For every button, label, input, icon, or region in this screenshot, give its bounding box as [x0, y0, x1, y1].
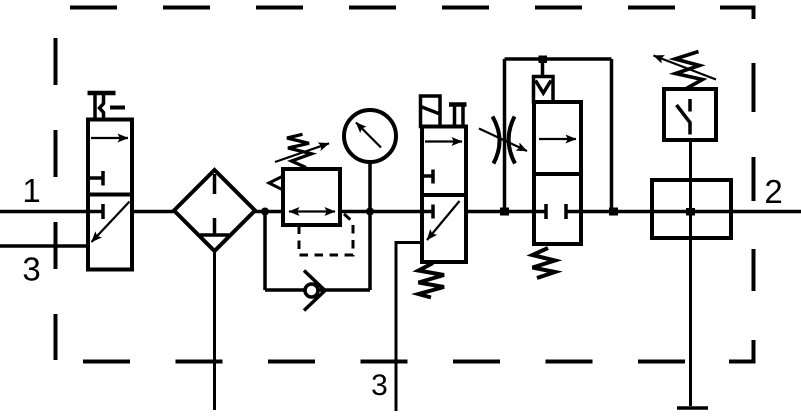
regulator double flow arrow	[289, 210, 335, 212]
V3 return spring	[533, 248, 556, 278]
node: distributor junction	[686, 208, 695, 216]
V1 top box blocked port T	[88, 171, 103, 186]
node: bypass right junction	[609, 208, 618, 216]
V2 top box flow arrow	[425, 140, 462, 142]
wire V2 to soft-start valve	[466, 210, 534, 214]
pressure switch adjustment arrow	[654, 56, 717, 80]
pressure switch spring	[675, 52, 703, 90]
svg-text:3: 3	[22, 251, 40, 288]
pressure switch contact	[688, 99, 692, 112]
V2 exhaust line to port 3	[396, 243, 422, 412]
regulator adjustment arrow	[275, 143, 329, 162]
regulator adjustment spring	[287, 134, 312, 167]
V2 return spring	[419, 263, 445, 298]
V3 bottom box blocked T left	[534, 204, 546, 219]
node: bypass left junction	[500, 208, 509, 216]
wire tee to pilot check valve	[541, 59, 545, 77]
drain end bar	[677, 406, 708, 410]
pressure switch PS1 box	[664, 89, 716, 140]
svg-text:2: 2	[764, 173, 782, 210]
V1 manual push-pull actuator	[88, 93, 126, 120]
port 3 line (left)	[0, 244, 88, 248]
pilot check valve box	[534, 77, 554, 103]
wire V1 to filter	[132, 210, 174, 214]
regulator relief triangle	[269, 176, 283, 190]
valve V1 shut-off 3/2 body	[88, 120, 132, 270]
V2 top box blocked port T	[422, 170, 433, 184]
adjustable throttle	[493, 117, 516, 164]
distributor block	[652, 180, 731, 238]
enclosure dashed frame top	[70, 8, 754, 20]
throttle adjustment arrow	[479, 129, 527, 152]
enclosure dashed frame right	[729, 63, 754, 362]
wire V3 to distributor and output port 2	[581, 210, 801, 214]
regulator R1 body	[283, 169, 340, 225]
V1 top box flow arrow	[91, 137, 128, 139]
filter F1 with water separator	[174, 170, 255, 251]
V2 manual override button	[449, 105, 467, 127]
enclosure dashed frame bottom	[83, 360, 685, 364]
check valve ball	[305, 284, 318, 297]
regulator pilot dashed line	[299, 214, 353, 255]
node: pilot tee junction	[539, 56, 548, 64]
V1 bottom box exhaust diagonal arrow	[92, 202, 130, 243]
V1 bottom box blocked port T	[88, 204, 103, 219]
node: gauge junction	[366, 208, 374, 216]
port 1 line	[0, 210, 88, 214]
distributor vertical line	[689, 140, 692, 406]
svg-text:1: 1	[22, 172, 40, 209]
soft-start bypass loop	[505, 59, 612, 212]
valve V3 soft-start 2/2 body	[534, 102, 581, 244]
V2 solenoid actuator	[421, 96, 441, 127]
pressure gauge G1	[344, 110, 396, 162]
svg-text:3: 3	[371, 369, 388, 402]
V3 bottom box blocked T right	[566, 204, 581, 219]
valve V2 solenoid 3/2 body	[422, 127, 466, 263]
bypass line with check valve	[265, 212, 370, 291]
gauge stem	[368, 162, 372, 212]
wire filter to regulator	[255, 210, 283, 214]
enclosure dashed frame left	[54, 38, 58, 360]
V2 bottom box blocked port T	[422, 205, 433, 219]
filter drain line	[213, 251, 216, 410]
V2 exhaust diagonal arrow	[427, 201, 460, 240]
gauge needle	[356, 123, 381, 148]
pilot check valve V	[536, 81, 552, 94]
V3 top box flow arrow	[539, 138, 576, 140]
node: junction before regulator	[261, 208, 269, 216]
check valve seat	[304, 271, 325, 311]
wire regulator to gauge junction	[340, 210, 422, 214]
